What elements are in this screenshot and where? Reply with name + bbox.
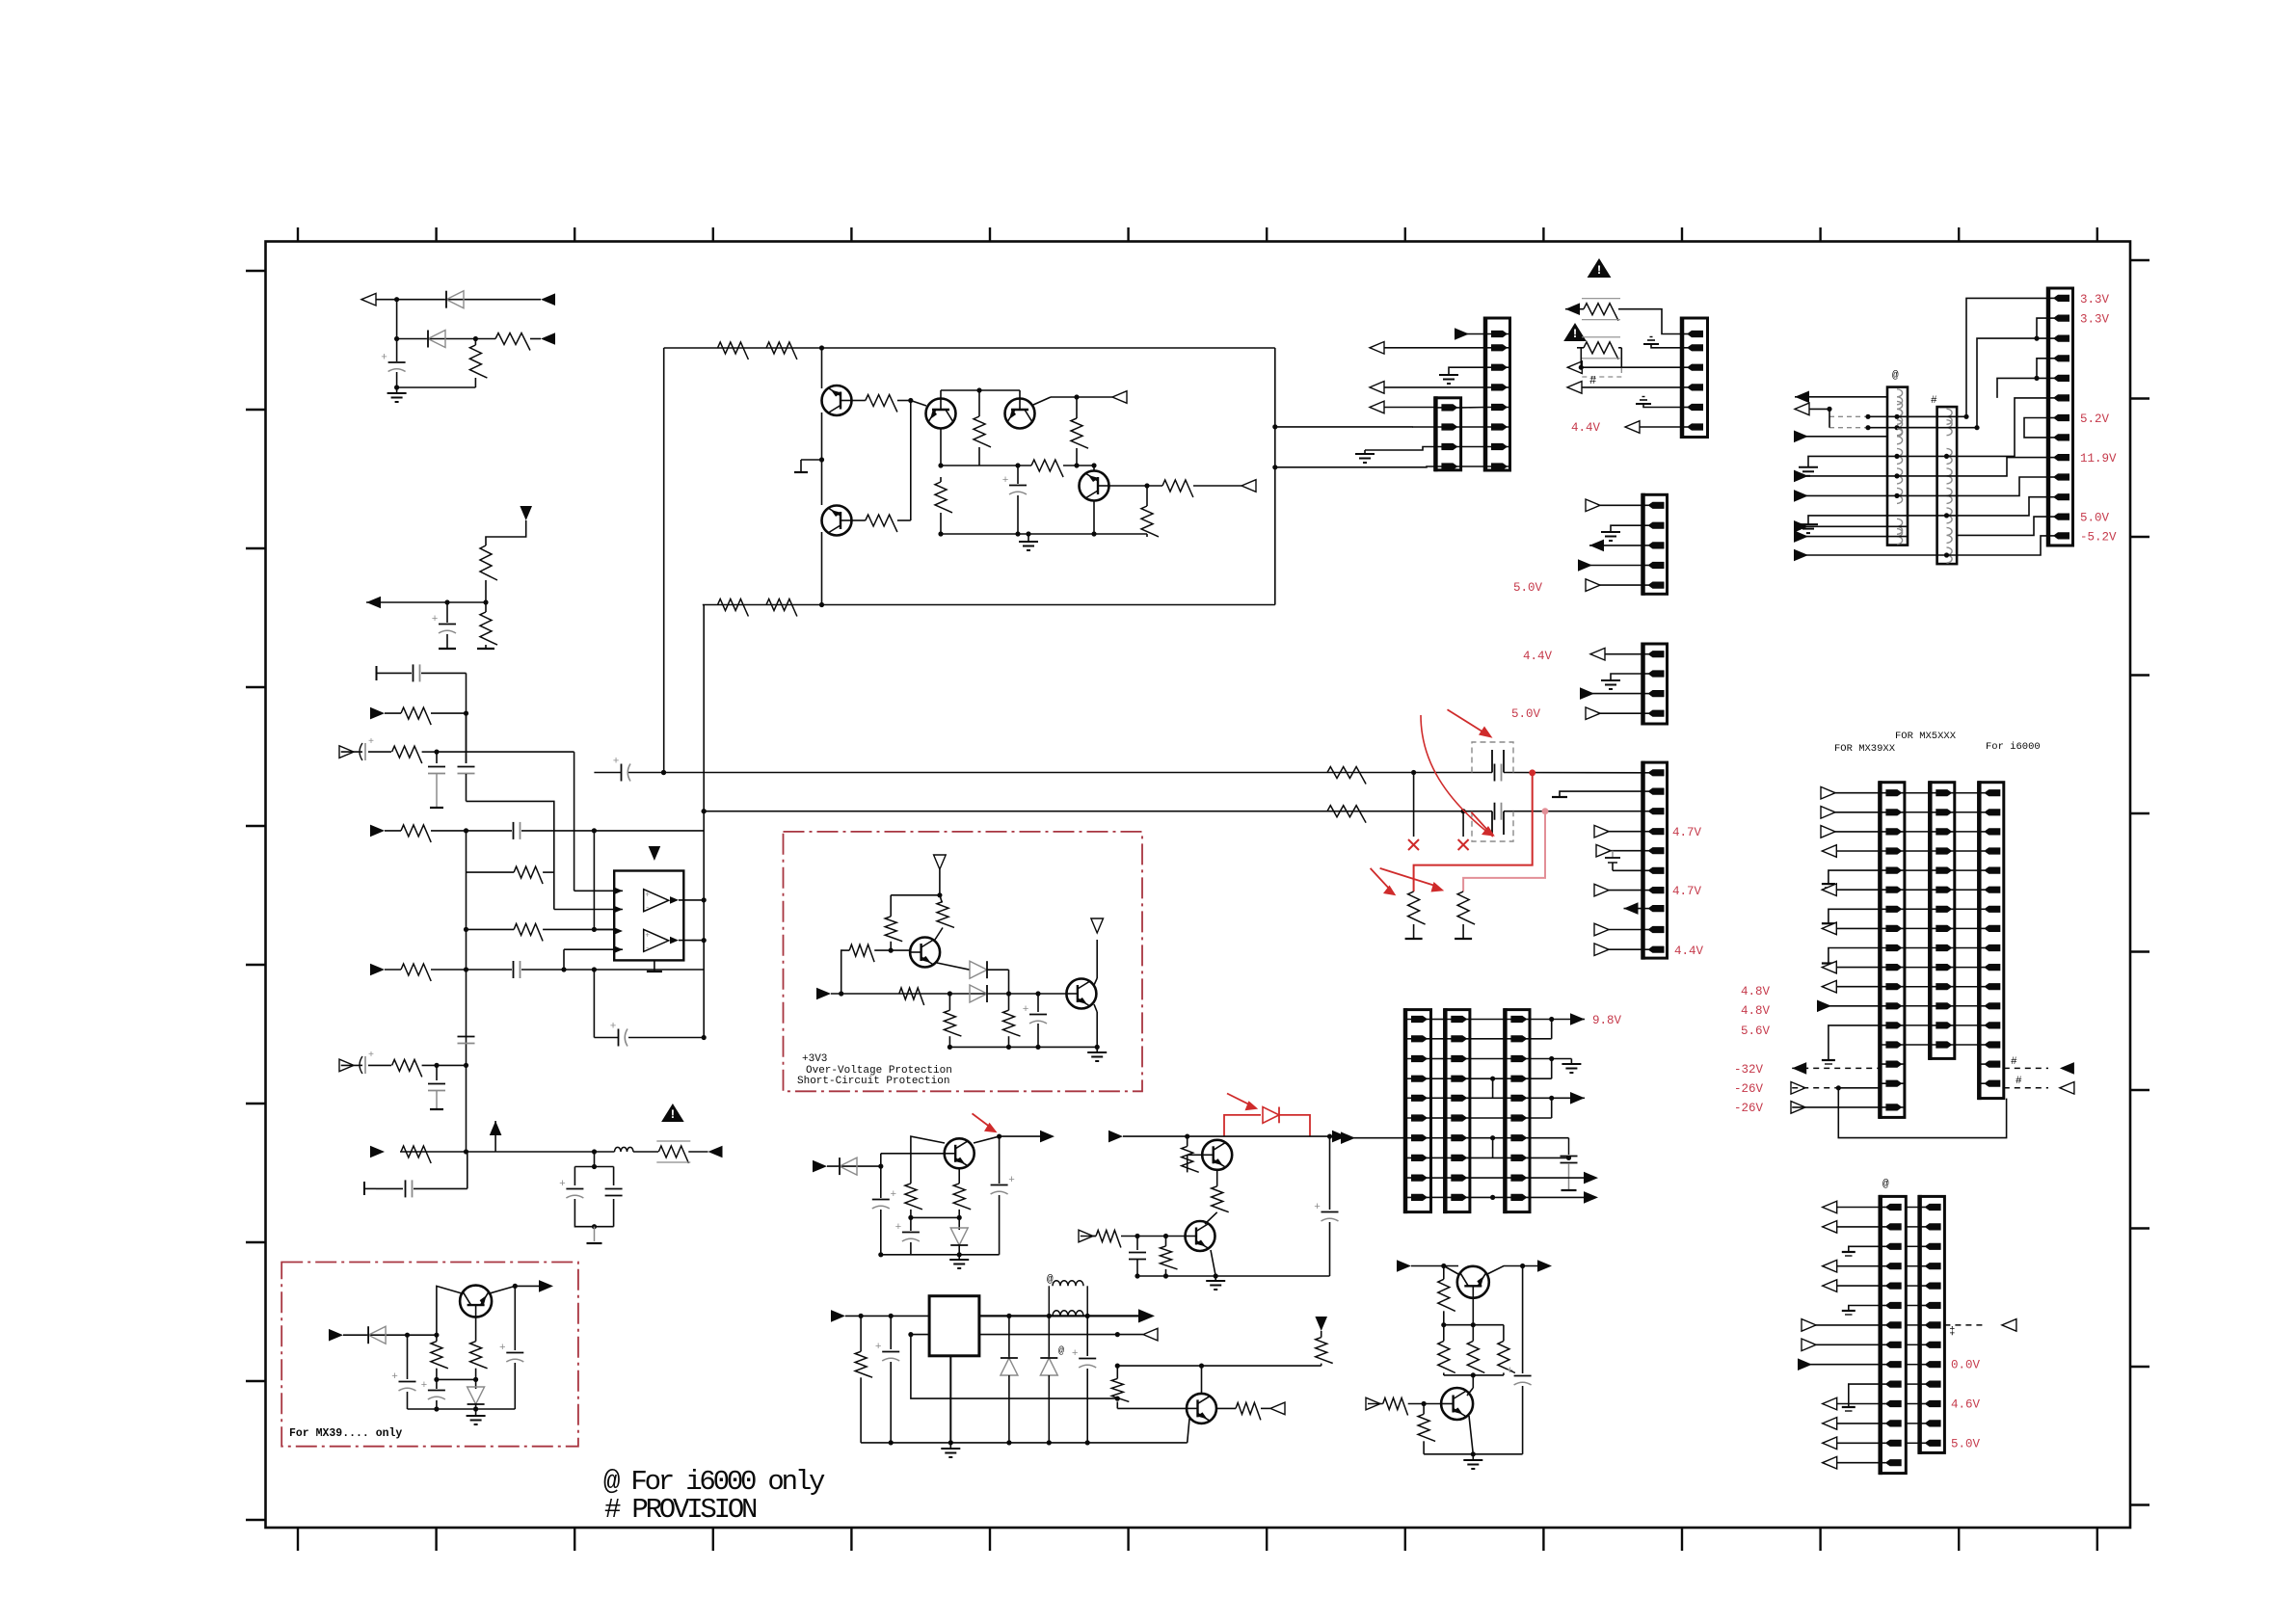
zener diode D6 — [958, 1217, 960, 1230]
open left arrow O4 — [1822, 850, 1880, 852]
connector CN2 — [1435, 398, 1460, 470]
open left arrow O5 — [1822, 889, 1880, 891]
svg-text:+3V3: +3V3 — [802, 1053, 827, 1065]
Q9 base wire — [1187, 1155, 1188, 1172]
transistor Q1 — [822, 386, 852, 415]
U1 input wires — [574, 890, 623, 891]
ground O1 — [1829, 870, 1881, 884]
junction J1 — [878, 1164, 883, 1169]
ground O3 — [1829, 948, 1881, 964]
filled right arrow Q1 — [1397, 1260, 1411, 1272]
filled right arrow F7 — [1795, 554, 1957, 556]
red dash-dot box B2 — [281, 1263, 578, 1447]
wire K resistor top rail — [1117, 1365, 1321, 1367]
wire I1 — [891, 894, 940, 896]
svg-text:5.6V: 5.6V — [1741, 1024, 1771, 1038]
Q3 emitter down — [940, 429, 942, 466]
base link wire — [910, 401, 912, 521]
svg-text:+: + — [381, 353, 387, 364]
filled right arrow J3 — [1108, 1131, 1123, 1143]
Q10 emitter — [1211, 1250, 1215, 1276]
filled right arrow N0 — [370, 1146, 385, 1158]
filled right arrow H3 — [1584, 1172, 1598, 1184]
filled right arrow I2 — [816, 988, 831, 1000]
ground H1 — [1570, 1059, 1572, 1065]
Q7 emitter — [1094, 1004, 1097, 1012]
red arrow RA1 — [1448, 709, 1486, 733]
transistor Q4 — [1005, 399, 1035, 429]
cap pair loop bottom — [574, 1199, 613, 1227]
resistor R13 — [1076, 397, 1078, 418]
Q13 emitter rail — [1487, 1266, 1538, 1275]
ground G1 — [1611, 525, 1643, 532]
svg-text:+: + — [368, 737, 374, 748]
node W1 — [1411, 770, 1416, 775]
right branch cap C32 — [1522, 1266, 1524, 1374]
filled right arrow K2 — [1138, 1309, 1155, 1322]
wire F row 444 — [1868, 427, 1937, 429]
wire Q mid — [1444, 1324, 1504, 1326]
open right arrow O14 — [1791, 1102, 1805, 1114]
resistor R5 — [485, 602, 487, 612]
capacitor C9 polarized — [880, 1166, 882, 1198]
capacitor C28 — [436, 1065, 438, 1080]
resistor R21 — [1457, 891, 1475, 924]
resistor R14 — [1031, 460, 1063, 477]
resistor R46 — [392, 1059, 422, 1077]
wire F row 535 — [1851, 515, 1957, 517]
Q8 collector top rail — [911, 1136, 945, 1180]
open left arrow P12 — [1823, 1462, 1881, 1464]
mesh wire M11 — [1957, 517, 2048, 535]
fusible resistor F2 — [1584, 342, 1618, 359]
svg-text:4.6V: 4.6V — [1951, 1398, 1981, 1412]
pcap row W1 start handled in block G — [593, 752, 595, 772]
mesh wire M3 — [1908, 338, 2048, 428]
filter block FB1 — [1887, 387, 1908, 545]
filled right arrow J2 — [1040, 1131, 1055, 1143]
node A1 wire — [361, 299, 541, 301]
svg-text:#: # — [2011, 1056, 2017, 1068]
right tick marks — [2130, 260, 2149, 1505]
red wire to R20 — [1414, 773, 1533, 891]
terminal N — [587, 1242, 602, 1244]
row1 output wire — [1530, 1019, 1571, 1021]
resistor R26 — [948, 994, 950, 1010]
filled down arrow K4 — [1315, 1317, 1327, 1331]
cap pair branch — [594, 1152, 596, 1167]
open right arrow O12 dashed — [1791, 1082, 1805, 1095]
svg-text:+: + — [875, 1342, 882, 1353]
ground G2 — [1611, 674, 1643, 680]
left drop wire — [663, 348, 665, 773]
grid jog J3 — [1490, 1195, 1495, 1200]
dashed wire P5 right — [1944, 1324, 1986, 1326]
open right arrow Q3 — [1366, 1397, 1380, 1410]
wire W2 right — [1504, 811, 1643, 812]
bottom rail K — [861, 1442, 1188, 1444]
open right arrow J5 — [1079, 1230, 1093, 1242]
fusible resistor F1 — [1584, 304, 1618, 321]
ground CN1 pin3 — [1449, 367, 1485, 375]
terminal R21 — [1455, 938, 1472, 940]
resistor R3 vertical — [474, 339, 476, 346]
cap pair loop — [574, 1166, 613, 1168]
wire B1 — [486, 520, 526, 545]
capacitor C21 — [436, 752, 438, 763]
open right arrow G7 — [1587, 712, 1643, 714]
row2 wire — [1530, 1038, 1552, 1040]
ground J2 — [1215, 1276, 1216, 1281]
F2 vertical stubs — [1580, 348, 1582, 367]
ground I — [1096, 1047, 1098, 1052]
filled right arrow G3 — [1579, 565, 1643, 567]
node C2 — [1074, 394, 1079, 399]
filled left arrow E1 — [1565, 303, 1580, 315]
junctions I — [839, 991, 843, 996]
cap stubs W1 — [1491, 750, 1493, 773]
Q11 emitter — [1188, 1419, 1189, 1443]
resistor R7 — [766, 342, 797, 359]
capacitor C3 polarized — [1017, 466, 1019, 484]
wire C25 — [593, 773, 595, 831]
svg-text:@: @ — [1058, 1345, 1064, 1357]
Q12 emitter rail right — [490, 1286, 540, 1293]
svg-text:+: + — [645, 891, 650, 900]
svg-text:+: + — [1002, 475, 1009, 487]
transistor Q2 — [822, 506, 852, 536]
open left arrow P11 — [1823, 1442, 1881, 1444]
wire F1 — [1565, 308, 1584, 310]
resistor R50 — [1472, 1325, 1474, 1342]
filled left arrow B — [366, 597, 381, 609]
filled right arrow H4 — [1584, 1191, 1598, 1204]
ground J1 — [958, 1255, 960, 1260]
ground A — [396, 387, 398, 393]
svg-text:4.7V: 4.7V — [1672, 826, 1702, 839]
svg-text:5.2V: 5.2V — [2080, 412, 2110, 426]
filled right arrow Q2 — [1537, 1260, 1552, 1272]
dashed provision box W2 — [1472, 811, 1513, 841]
capacitor C17 polarized — [436, 1379, 438, 1389]
open left arrow CN1 pin4 — [1370, 386, 1485, 388]
resistor R6 — [718, 342, 749, 359]
red arrow RA4 — [1380, 868, 1438, 887]
corner drop — [467, 1152, 467, 1188]
mesh wire M4 — [2037, 359, 2048, 379]
connector CN9 — [1445, 1010, 1470, 1212]
capacitor C19 series — [377, 672, 413, 674]
wire A3 — [397, 386, 476, 388]
filled right arrow O9 — [1818, 1005, 1880, 1007]
capacitor C22 — [466, 713, 467, 763]
connector CN1 — [1485, 318, 1510, 470]
top tick marks — [298, 227, 2097, 241]
row8 wire — [1530, 1157, 1569, 1158]
filled right arrow G6 — [1581, 693, 1643, 695]
capacitor C14 polarized — [890, 1316, 892, 1349]
terminal C21 — [430, 807, 443, 809]
wire R43 left — [467, 871, 515, 873]
stub X1 — [1413, 773, 1415, 838]
open right arrow G1 — [1587, 504, 1643, 506]
mesh wire M6 — [1957, 398, 2048, 457]
svg-text:+: + — [1072, 1348, 1079, 1360]
terminal C28 — [430, 1108, 443, 1110]
capacitor C23 series — [513, 822, 515, 839]
stub X2 — [1462, 811, 1464, 837]
ground P2 — [1849, 1306, 1881, 1312]
Q13 base down — [1472, 1298, 1474, 1325]
ground Q — [1472, 1454, 1474, 1460]
Q2 base resistor R9 — [851, 519, 866, 521]
open right arrow P5 — [1802, 1324, 1881, 1326]
capacitor C1 polarized — [396, 339, 398, 362]
capacitor C7 to ground — [1568, 1138, 1570, 1155]
wire -26V to CN11 — [1838, 1087, 1880, 1089]
open left arrow CN1 pin2 — [1370, 347, 1485, 349]
mesh wire M2 — [2037, 318, 2048, 338]
resistor R44 — [514, 923, 543, 941]
wire N2 — [495, 1151, 594, 1153]
bottom wire C — [939, 533, 1147, 535]
diode D5 — [840, 1157, 857, 1175]
svg-text:+: + — [1023, 1004, 1029, 1016]
wire J mid — [911, 1216, 959, 1218]
wire M3 drop — [574, 752, 575, 891]
diode D8 — [1008, 1316, 1010, 1358]
svg-text:-: - — [645, 904, 650, 913]
Q14 emitter — [1469, 1416, 1473, 1454]
resistor R27 — [1008, 994, 1010, 1010]
svg-text:-26V: -26V — [1734, 1102, 1764, 1115]
capacitor C31 — [605, 1188, 623, 1190]
junctions J5 — [1135, 1234, 1139, 1238]
connector CN15 — [1920, 1196, 1945, 1452]
rail segment top — [466, 673, 467, 713]
transistor Q5 — [1080, 471, 1109, 501]
resistor R23 slanted — [940, 895, 942, 902]
filled right arrow K1 — [831, 1310, 845, 1322]
svg-text:4.4V: 4.4V — [1523, 650, 1553, 663]
svg-text:+: + — [391, 1371, 398, 1383]
cap to ground G — [1612, 851, 1614, 858]
Q6 base resistor R24 — [843, 949, 849, 951]
svg-text:#: # — [1931, 395, 1937, 407]
resistor R33 — [1165, 1237, 1167, 1246]
terminal R20 — [1405, 938, 1423, 940]
open left arrow A — [361, 293, 376, 306]
capacitor C6 series — [1494, 803, 1496, 820]
resistor R10 — [718, 599, 749, 617]
red node W2 — [1542, 808, 1549, 814]
warning triangle W2 — [1563, 323, 1587, 341]
resistor R36 — [1321, 1331, 1322, 1338]
filled down arrow B — [520, 506, 532, 520]
wire to Q14 — [1472, 1375, 1474, 1388]
row wires CN14-CN15 — [1906, 1207, 1919, 1209]
svg-text:5.0V: 5.0V — [1511, 707, 1541, 721]
open right arrow G9 — [1597, 850, 1643, 852]
fusible resistor F3 — [658, 1146, 688, 1163]
open right arrow G12 — [1595, 929, 1643, 931]
-26V loop wire — [1838, 1088, 2006, 1138]
open left arrow O13 — [2060, 1082, 2074, 1095]
junction L1 — [405, 1333, 410, 1338]
bottom rail Q — [1424, 1453, 1523, 1455]
filled right arrow F6 — [1795, 536, 1908, 538]
resistor R20 — [1408, 891, 1426, 924]
capacitor C12 — [1136, 1237, 1138, 1251]
row7 wire to cap — [1530, 1137, 1569, 1139]
filled left arrow N3 — [708, 1146, 723, 1158]
svg-text:+: + — [890, 1189, 896, 1201]
filled left arrow A2 — [541, 333, 555, 345]
grid jog J2 — [1492, 1138, 1494, 1158]
resistor R37 — [1216, 1407, 1236, 1409]
warning triangle W3 — [661, 1104, 684, 1122]
U1 input wire 4 drop — [563, 949, 565, 970]
junction A2 — [394, 336, 399, 341]
left tick marks — [246, 271, 265, 1520]
svg-text:5.0V: 5.0V — [2080, 512, 2110, 525]
svg-text:3.3V: 3.3V — [2080, 293, 2110, 306]
cap C11 polarized right branch — [999, 1136, 1001, 1184]
resistor R48 — [1443, 1266, 1445, 1280]
filled right arrow M7 — [370, 964, 385, 976]
svg-text:+: + — [1008, 1175, 1015, 1186]
filled right arrow F4 — [1795, 494, 1957, 496]
open right arrow G10 — [1595, 890, 1643, 891]
svg-text:4.8V: 4.8V — [1741, 1004, 1771, 1018]
wire J3b — [1216, 1135, 1330, 1137]
resistor R19 — [1327, 806, 1366, 823]
long vertical node dots — [661, 770, 666, 775]
red arrow RA5 — [973, 1113, 992, 1128]
filled left arrow G2 — [1589, 545, 1643, 546]
red arrow RA6 — [1227, 1094, 1251, 1106]
ground F1 — [1808, 456, 1841, 466]
ground O4 — [1829, 1025, 1881, 1060]
bottom rail I — [949, 1046, 1097, 1048]
filled right arrow L2 input — [329, 1329, 343, 1342]
ground C — [1028, 534, 1029, 542]
diode D1 — [446, 291, 464, 308]
connector CN8 — [1405, 1010, 1431, 1212]
connector CN6 — [1643, 644, 1668, 724]
open left arrow P3 — [1823, 1265, 1881, 1267]
comparator box U1 — [614, 871, 683, 961]
connector CN12 — [1930, 783, 1955, 1059]
open right arrow G13 — [1595, 948, 1643, 950]
resistor R45 — [401, 964, 431, 981]
zener diode D11 — [475, 1379, 477, 1389]
terminal row1233 — [363, 1182, 365, 1195]
ground L — [475, 1409, 477, 1416]
red diode D7 bypass — [1224, 1115, 1261, 1136]
Q11 base wire — [1117, 1407, 1187, 1409]
open left arrow P6 — [2002, 1319, 2016, 1332]
open left arrow P4 — [1823, 1285, 1881, 1287]
comparator U1b — [644, 929, 669, 951]
ground stub wire — [1365, 447, 1435, 451]
resistor R28 — [910, 1180, 912, 1184]
svg-text:+: + — [559, 1179, 566, 1190]
transistor Q3 — [926, 399, 956, 429]
resistor R18 — [1327, 767, 1366, 785]
diode D4 — [970, 985, 987, 1002]
mesh wire M1 — [1908, 298, 2048, 416]
open right arrow M3 — [339, 746, 354, 758]
connector CN14 — [1881, 1196, 1907, 1473]
regulator ground pin — [949, 1356, 951, 1443]
filled left arrow O11 — [2060, 1062, 2074, 1075]
svg-text:-26V: -26V — [1734, 1082, 1764, 1096]
wire Q3-Q4 — [940, 390, 942, 399]
bottom rail J — [881, 1254, 1000, 1256]
mesh wire M9 — [1957, 477, 2048, 495]
connector CN10 — [1505, 1010, 1530, 1212]
row 1233 wire — [376, 1187, 403, 1189]
base bias stub — [801, 459, 822, 461]
resistor R8 Q1 base — [851, 400, 866, 402]
Q9 emitter resistor R31 — [1216, 1170, 1218, 1186]
row3 wire to ground — [1530, 1058, 1571, 1060]
filled right arrow J4 — [1332, 1131, 1347, 1143]
capacitor C18 polarized — [514, 1286, 516, 1350]
connector CN11 — [1880, 783, 1905, 1118]
open right arrows O1-O3 — [1822, 792, 1880, 794]
red X mark 1 — [1408, 839, 1419, 850]
Q5 emitter — [1093, 501, 1095, 535]
connector CN5 — [1643, 494, 1668, 594]
transistor Q8 — [945, 1138, 974, 1168]
filled right arrow H1 — [1570, 1013, 1585, 1025]
wire CN2-CN1 rows — [1461, 407, 1485, 409]
row9 output wire — [1530, 1177, 1585, 1179]
svg-text:4.4V: 4.4V — [1674, 945, 1704, 958]
svg-text:+: + — [645, 931, 650, 940]
Q11 collector — [1201, 1366, 1203, 1394]
wire M5 right — [594, 830, 704, 832]
dashed wire -26V right — [2004, 1087, 2048, 1089]
svg-text:‡: ‡ — [1949, 1326, 1956, 1338]
grid row wires left — [1431, 1019, 1446, 1021]
Q13 collector rail — [1444, 1266, 1458, 1275]
long wire W1 — [594, 772, 621, 774]
capacitor C30 polarized — [566, 1188, 583, 1190]
resistor R42 — [401, 825, 431, 842]
capacitor C26 — [466, 1022, 467, 1028]
wire F row 432 — [1868, 415, 1937, 417]
resistor R30 — [1187, 1136, 1188, 1146]
svg-text:5.0V: 5.0V — [1513, 581, 1543, 595]
open left arrow C1 — [1112, 391, 1127, 404]
filled up arrow N1 — [490, 1121, 502, 1135]
mesh wire M8 — [1957, 458, 2048, 476]
wire to CN3 pin3 — [1621, 366, 1682, 368]
resistor R34 — [860, 1316, 862, 1351]
capacitor C27 polarized series — [359, 1064, 362, 1066]
capacitor C4 polarized — [621, 764, 623, 782]
resistor R38 — [436, 1335, 438, 1342]
wire L mid — [437, 1378, 476, 1380]
red arrow RA3 — [1371, 868, 1391, 891]
wire C29 left drop — [593, 970, 595, 1038]
ground P1 — [1849, 1246, 1881, 1252]
capacitor C13 polarized — [1329, 1136, 1331, 1210]
long wire W1 right — [664, 772, 1493, 774]
